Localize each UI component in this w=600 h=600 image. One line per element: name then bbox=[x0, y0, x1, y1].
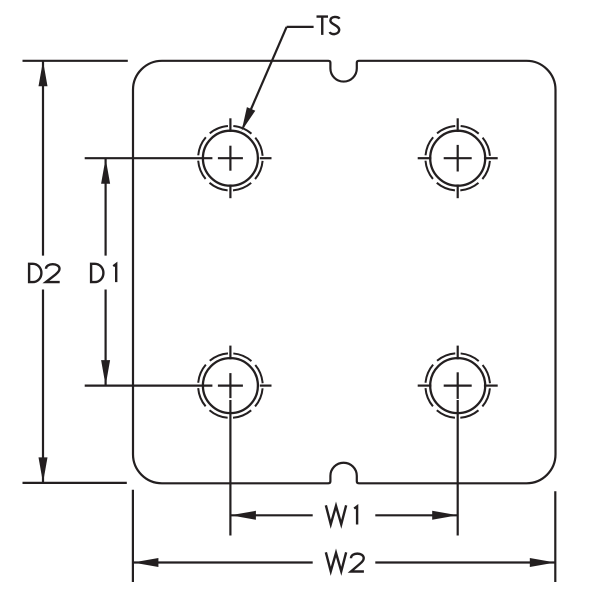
dimension W2 : right extension line bbox=[554, 491, 556, 582]
dimension W2 : right arrowhead bbox=[530, 558, 556, 567]
hole top-right : center cross and ticks bbox=[418, 118, 498, 198]
dimension D2 : dimension line bbox=[42, 62, 44, 483]
hole bottom-right : center cross and ticks bbox=[418, 346, 498, 399]
hole bottom-left : dashed circle bbox=[198, 353, 263, 418]
dimension W1 : right arrowhead bbox=[432, 511, 458, 520]
hole top-right : solid circle bbox=[430, 131, 485, 186]
hole bottom-right : centerline extension down to W1 bbox=[457, 400, 459, 536]
hole bottom-right : solid circle bbox=[430, 358, 485, 413]
dimension D2 : bottom extension line bbox=[23, 482, 127, 484]
dimension D1 : top arrowhead bbox=[101, 158, 110, 184]
dimension W1 : label bbox=[326, 505, 357, 524]
dimension W2 : left arrowhead bbox=[133, 558, 159, 567]
dimension D1 : bottom arrowhead bbox=[101, 360, 110, 386]
hole top-left : dashed circle bbox=[198, 126, 263, 191]
hole bottom-left : centerline extension down to W1 bbox=[229, 400, 231, 536]
dimension D1 : label bbox=[91, 264, 116, 282]
dimension W1 : left arrowhead bbox=[230, 511, 256, 520]
hole bottom-left : solid circle bbox=[203, 358, 258, 413]
plate outline with top and bottom notches bbox=[133, 61, 556, 484]
leader TS : arrowhead bbox=[242, 107, 256, 131]
hole top-left : center cross and ticks bbox=[218, 118, 272, 198]
dimension D1 : dimension line bbox=[104, 159, 106, 385]
dimension W2 : label bbox=[326, 552, 364, 571]
dimension W1 : dimension line bbox=[231, 514, 457, 516]
dimension D1 : extension line upper (through hole center row) bbox=[85, 157, 213, 159]
dimension D2 : top extension line bbox=[23, 60, 128, 62]
dimension W2 : left extension line bbox=[132, 490, 134, 582]
dimension W2 : dimension line bbox=[134, 561, 555, 563]
dimension D2 : label bbox=[29, 264, 60, 282]
dimension D1 : extension line lower (through hole center row) bbox=[85, 385, 213, 387]
dimension D2 : bottom arrowhead bbox=[39, 457, 48, 483]
leader TS : leader line bbox=[243, 27, 313, 127]
leader TS : label bbox=[317, 17, 340, 35]
hole top-left : solid circle bbox=[203, 131, 258, 186]
hole bottom-left : center cross and ticks bbox=[218, 346, 272, 399]
hole bottom-right : dashed circle bbox=[425, 353, 490, 418]
hole top-right : dashed circle bbox=[425, 126, 490, 191]
dimension D2 : top arrowhead bbox=[39, 61, 48, 87]
